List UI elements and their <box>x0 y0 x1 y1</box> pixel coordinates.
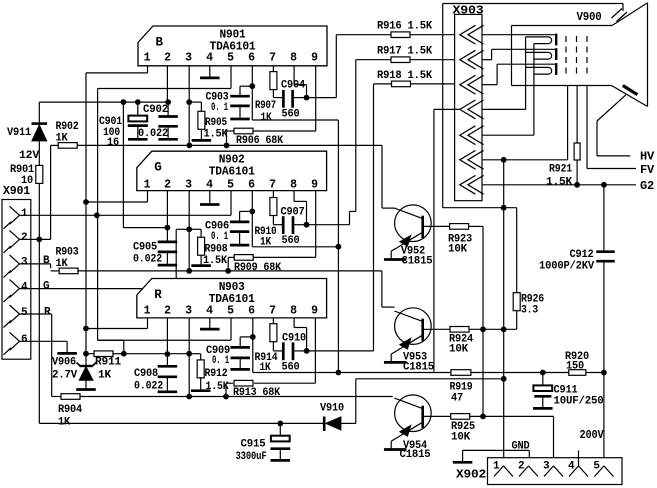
wire C915 top <box>279 423 281 435</box>
svg-text:R902: R902 <box>56 121 79 133</box>
label C901 <box>99 116 123 149</box>
wire N901 pin5 <box>98 66 231 89</box>
svg-text:0. 1: 0. 1 <box>211 231 228 243</box>
contact chevron X903 row3 <box>460 75 484 94</box>
wire R918 to X903 pin3 <box>410 83 459 85</box>
svg-text:2: 2 <box>164 52 171 65</box>
wire 200V column bottom <box>603 261 605 466</box>
svg-text:3.3: 3.3 <box>521 305 539 317</box>
capacitor C906 0.1 <box>205 221 249 244</box>
pin 2 X902 <box>518 461 538 477</box>
node pin6-C903 <box>249 83 255 89</box>
wire C909 tee <box>240 337 253 346</box>
wire G1 blank row <box>356 379 504 424</box>
svg-text:3: 3 <box>185 52 192 65</box>
wire N901 pin1 to common bias column <box>86 66 148 73</box>
wire C907 right <box>293 224 307 226</box>
svg-text:R904: R904 <box>58 404 83 416</box>
resistor R903 1K <box>56 247 80 274</box>
resistor R919 47 <box>450 370 473 405</box>
resistor R910 1K <box>255 198 277 249</box>
label X902 <box>456 468 486 482</box>
resistor R926 3.3 <box>513 293 544 317</box>
label V910 <box>320 403 344 415</box>
svg-text:10K: 10K <box>448 244 468 256</box>
node junction bias R911 <box>83 351 89 357</box>
wire X901 pin3 row B <box>20 264 51 268</box>
svg-text:2: 2 <box>21 232 27 244</box>
svg-text:560: 560 <box>282 361 300 373</box>
svg-text:V910: V910 <box>320 403 344 415</box>
capacitor C907 560 <box>281 206 305 247</box>
wire R920 right <box>586 372 604 374</box>
svg-text:3: 3 <box>185 304 192 317</box>
wire X901 pin1 row <box>20 214 231 216</box>
wire shield drop <box>503 160 505 466</box>
cathode bar 3 <box>555 63 557 75</box>
resistor R924 10K <box>449 327 474 356</box>
wire G riser to N902 pin3 <box>176 229 189 288</box>
wire N901 pin9 feedback <box>253 66 316 131</box>
break mark <box>612 9 628 22</box>
node junction pin1 N902 <box>83 199 89 205</box>
connector X901 box <box>2 200 31 360</box>
svg-text:R917 1.5K: R917 1.5K <box>377 45 433 57</box>
svg-text:2.7V: 2.7V <box>52 370 78 382</box>
wire X903 row5 to heater return <box>482 44 534 136</box>
resistor R906 68K <box>234 128 284 147</box>
svg-text:R908: R908 <box>205 244 229 256</box>
node C915 <box>277 421 283 427</box>
wire V906 to ground <box>85 380 87 388</box>
wire R921 bottom <box>576 160 578 185</box>
label V911 <box>7 127 32 139</box>
svg-text:C905: C905 <box>133 242 158 254</box>
contact chevron X903 row1 <box>460 25 484 44</box>
ground bar N902 pin4 <box>200 203 220 206</box>
wire FV <box>587 86 636 169</box>
contact chevron X903 row4 <box>460 100 484 119</box>
wire R924 right <box>469 328 517 330</box>
pin 3 X901 <box>4 255 29 278</box>
svg-text:47: 47 <box>451 393 463 405</box>
wire 12V rail <box>39 101 168 103</box>
resistor R914 1K <box>255 324 279 374</box>
wire X902 pin4 stub <box>578 451 580 466</box>
svg-text:R918 1.5K: R918 1.5K <box>377 70 433 82</box>
svg-text:1000P/2KV: 1000P/2KV <box>539 260 595 272</box>
wire R905 to ground <box>200 129 202 139</box>
capacitor C915 3300uF electrolytic <box>271 436 291 449</box>
capacitor C902 0.022 <box>143 104 178 126</box>
resistor R918 1.5K <box>377 70 433 87</box>
svg-text:3: 3 <box>21 257 28 269</box>
wire X903 row7 G2 <box>482 184 636 186</box>
wire R901 to X901 pin2 row <box>38 183 40 239</box>
svg-text:R: R <box>154 288 162 302</box>
wire 12V column to V910 row <box>38 239 40 423</box>
resistor R912 1.5K <box>197 360 229 393</box>
svg-text:R912: R912 <box>205 368 228 380</box>
resistor R925 10K <box>451 414 476 444</box>
heater filament 3 <box>526 67 552 74</box>
node beam rail join <box>336 370 342 376</box>
cathode bar 1 <box>555 34 557 46</box>
heater filament 2 <box>526 52 552 59</box>
wire R output to riser <box>307 350 374 352</box>
svg-text:V900: V900 <box>577 11 602 24</box>
wire pin3 to R912 <box>189 354 201 361</box>
svg-text:R905: R905 <box>205 117 228 129</box>
resistor R917 1.5K <box>377 45 433 62</box>
wire V910 anode <box>341 422 356 424</box>
wire 200V column top <box>603 185 605 252</box>
contact chevron X903 row2 <box>460 50 484 69</box>
label C911 <box>554 385 604 408</box>
wire X901 pin4 row G <box>20 288 177 290</box>
svg-text:10K: 10K <box>451 432 471 444</box>
wire C906 tee <box>240 211 253 220</box>
wire N902 pin9 feedback <box>253 191 316 258</box>
ground bar C903 <box>230 118 250 121</box>
node pin6-C909 <box>250 334 256 340</box>
wire R912 to ground <box>200 377 202 390</box>
zener diode V906 2.7V <box>77 363 96 381</box>
svg-text:8: 8 <box>290 178 297 191</box>
wire R925 right <box>469 415 554 417</box>
wire C905 to ground <box>166 253 168 264</box>
svg-text:12V: 12V <box>19 150 40 162</box>
wire R923 right drop <box>468 226 483 416</box>
resistor R916 1.5K <box>377 20 433 37</box>
node R906 input row <box>224 143 230 149</box>
wire C902 to ground <box>167 128 169 139</box>
pin 4 X902 <box>568 461 588 477</box>
wire C901 top <box>137 102 139 116</box>
wire X903 row6 G1 <box>482 86 567 160</box>
wire beam rail <box>253 372 451 374</box>
svg-text:0.022: 0.022 <box>133 254 162 266</box>
svg-text:3: 3 <box>543 461 550 473</box>
node N902 pin2 C905 <box>165 225 171 231</box>
wire R902 left to 12V pin2 row <box>51 145 59 239</box>
wire C911 top <box>542 373 544 386</box>
svg-text:5: 5 <box>227 178 234 191</box>
pin 1 X902 <box>493 461 513 477</box>
node N903 pin3 upper <box>186 351 192 357</box>
node B output <box>304 95 310 101</box>
wire R910 to C907 <box>273 215 283 225</box>
wire X903 row4 to heater <box>482 37 525 110</box>
label GND <box>512 441 531 453</box>
resistor R909 68K <box>234 255 282 274</box>
svg-text:TDA6101: TDA6101 <box>209 166 255 179</box>
wire C905 top <box>166 228 168 241</box>
svg-text:4: 4 <box>568 461 575 473</box>
svg-text:10K: 10K <box>449 344 469 356</box>
svg-text:10UF/250: 10UF/250 <box>554 395 604 407</box>
capacitor C908 0.022 <box>134 366 177 392</box>
svg-text:1: 1 <box>493 461 500 473</box>
label X903 <box>453 4 484 18</box>
op-amp U N901 TDA6101 (B channel amp) <box>138 26 327 66</box>
wire N902 pin2 supply <box>166 191 168 228</box>
resistor R907 1K <box>255 72 277 124</box>
ground bar C915 <box>271 459 291 462</box>
wire R916 to X903 pin1 <box>410 34 460 36</box>
node G2 200V <box>601 182 607 188</box>
contact chevron X903 row5 <box>460 126 484 145</box>
wire C904 right to output node <box>293 97 307 99</box>
svg-text:1: 1 <box>144 178 151 191</box>
wire R917 to X903 pin2 <box>410 59 460 61</box>
wire V911 top <box>38 102 40 124</box>
svg-text:V906: V906 <box>52 357 76 369</box>
transistor Q V952 C1815 <box>384 205 433 268</box>
label V900 <box>577 11 602 24</box>
svg-text:4: 4 <box>206 304 213 317</box>
wire N902 pin4 ground <box>209 191 211 204</box>
op-amp U N902 TDA6101 (G channel amp) <box>137 151 327 191</box>
svg-text:1K: 1K <box>260 237 272 249</box>
wire N901 pin3 down <box>188 66 190 146</box>
svg-text:C1815: C1815 <box>402 256 434 268</box>
svg-text:1: 1 <box>144 304 151 317</box>
resistor R901 10 <box>10 164 43 187</box>
svg-text:C910: C910 <box>282 333 306 345</box>
svg-text:C907: C907 <box>281 206 305 218</box>
svg-text:5: 5 <box>227 304 234 317</box>
resistor R923 10K <box>448 224 473 256</box>
wire X903 row4 left <box>434 109 460 371</box>
node X901 pin1 junction <box>94 212 100 218</box>
node shield R919 row <box>501 376 507 382</box>
wire N903 pin7 to R914 <box>272 318 274 324</box>
node pin3-input-row <box>187 143 193 149</box>
pin 1 X901 <box>4 206 29 229</box>
svg-text:R921: R921 <box>549 164 573 176</box>
svg-text:5: 5 <box>227 52 234 65</box>
resistor R921 1.5K <box>546 143 580 188</box>
svg-text:1K: 1K <box>56 258 69 270</box>
label B <box>43 255 50 267</box>
wire C901 to ground <box>137 127 139 138</box>
pin 3 X902 <box>543 461 563 477</box>
wire R903 left <box>51 270 60 272</box>
node R923-R925 <box>480 414 486 420</box>
resistor R905 1.5K <box>198 111 228 140</box>
svg-text:7: 7 <box>269 304 276 317</box>
svg-text:8: 8 <box>290 52 297 65</box>
wire C909 to ground <box>239 359 241 368</box>
capacitor C910 560 <box>282 333 307 374</box>
node N902 pin3 input <box>186 226 192 232</box>
wire N903 pin6 down <box>252 318 254 373</box>
svg-text:9: 9 <box>311 52 318 65</box>
svg-text:C908: C908 <box>134 368 159 380</box>
svg-text:9: 9 <box>311 178 318 191</box>
label C915 <box>236 439 267 464</box>
wire pin3 to R908 <box>189 229 201 237</box>
ground bar X902 <box>453 461 473 464</box>
svg-text:R: R <box>44 306 51 318</box>
wire rail right <box>471 372 569 374</box>
wire C908 top <box>166 354 168 365</box>
pin 2 X901 <box>4 230 28 253</box>
svg-text:C1815: C1815 <box>403 361 435 373</box>
wire R906 left <box>227 131 235 145</box>
node R output <box>304 348 310 354</box>
node shield frame <box>501 205 507 211</box>
svg-text:4: 4 <box>206 178 213 191</box>
resistor R920 150 <box>565 351 589 375</box>
svg-text:560: 560 <box>282 109 300 121</box>
label HV <box>640 151 654 164</box>
svg-text:6: 6 <box>21 334 27 346</box>
capacitor C909 0.1 <box>206 345 250 367</box>
svg-text:16: 16 <box>107 137 119 149</box>
ground bar R905 <box>192 139 212 142</box>
svg-text:G2: G2 <box>640 180 654 193</box>
ground bar N903 pin4 <box>200 328 220 331</box>
wire R911 row <box>124 353 189 355</box>
node R913 lower <box>223 394 229 400</box>
svg-text:8: 8 <box>290 304 297 317</box>
svg-text:2: 2 <box>164 178 171 191</box>
node pin3 N902 row <box>186 268 192 274</box>
svg-text:5: 5 <box>593 461 600 473</box>
transistor Q V953 C1815 <box>384 308 435 373</box>
wire C908 to ground <box>166 378 168 391</box>
contact chevron X903 row7 <box>460 175 484 194</box>
wire cathode 1 <box>482 34 556 36</box>
capacitor C911 10UF/250 electrolytic <box>533 385 552 396</box>
wire G output riser <box>356 60 391 212</box>
node R901 pin2 <box>36 237 42 243</box>
label G2 <box>640 180 654 193</box>
pin 5 X902 <box>593 461 613 477</box>
svg-text:C1815: C1815 <box>400 449 432 461</box>
wire beam sense vertical <box>337 120 339 373</box>
node R911 right feed <box>121 351 127 357</box>
anode stroke <box>623 86 638 95</box>
wire R911 right <box>112 353 123 355</box>
resistor R902 1K <box>56 121 79 148</box>
svg-text:R916 1.5K: R916 1.5K <box>377 20 433 32</box>
diode V910 <box>324 417 341 431</box>
crt V900 funnel <box>612 3 648 107</box>
wire C915 to ground <box>279 449 281 460</box>
node 12V-C901 <box>121 99 127 105</box>
node R923-R924 <box>480 326 486 332</box>
wire R926 bottom <box>516 310 518 329</box>
cathode bar 2 <box>555 48 557 60</box>
svg-text:G: G <box>154 161 161 175</box>
svg-text:0. 1: 0. 1 <box>212 355 229 367</box>
wire N903 pin1 <box>86 318 148 329</box>
label 200V <box>580 429 604 442</box>
connector X902 box <box>488 458 623 485</box>
svg-text:150: 150 <box>566 360 584 372</box>
wire N903 pin8 output <box>294 318 307 351</box>
wire V910 cathode row <box>39 422 324 424</box>
wire X901 pin2 row <box>20 238 51 240</box>
contact chevron X903 row6 <box>460 150 484 169</box>
grid dashed electrode 3 <box>586 36 588 78</box>
ground bar N901 pin4 <box>200 77 220 80</box>
label R <box>44 306 51 318</box>
wire V954 base to R925 <box>424 415 451 417</box>
node rail C911 <box>540 370 546 376</box>
svg-text:R903: R903 <box>56 247 80 259</box>
wire N903 pin9 feedback <box>254 318 315 383</box>
svg-text:2: 2 <box>518 461 524 473</box>
svg-text:C915: C915 <box>241 439 267 451</box>
label C902 value <box>138 128 168 140</box>
wire B input row <box>77 144 382 146</box>
wire N901 pin6 down <box>251 66 253 120</box>
pin 6 X901 <box>4 332 28 355</box>
capacitor C912 1000P/2KV <box>539 249 615 272</box>
svg-text:1: 1 <box>21 208 28 220</box>
wire X902 gnd <box>463 450 530 466</box>
svg-text:C904: C904 <box>281 80 306 92</box>
wire V911 to R901 <box>38 141 40 166</box>
wire R926 column <box>516 208 518 294</box>
wire pin3 to R905 <box>189 102 201 111</box>
wire zener V906 top <box>85 354 87 366</box>
node N903 pin2 <box>165 351 171 357</box>
wire X901 pin5 row R <box>20 313 52 315</box>
svg-text:6: 6 <box>248 52 255 65</box>
svg-text:1: 1 <box>144 52 151 65</box>
wire C906 to ground <box>239 233 241 244</box>
wire C903 tee <box>240 86 252 95</box>
node G1 shield <box>501 157 507 163</box>
wire HV <box>597 95 630 156</box>
wire pin6 to beam line <box>252 246 338 248</box>
ground bar V906 <box>76 388 96 391</box>
label X901 <box>3 185 30 198</box>
wire N903 pin5 <box>98 318 231 340</box>
node pin6-C906 <box>249 209 255 215</box>
wire C902 top <box>167 102 169 115</box>
svg-text:1.5K: 1.5K <box>546 176 573 188</box>
wire R921 top <box>576 86 578 144</box>
wire cathode 2 <box>482 49 556 59</box>
node 12V-C902-pin2 <box>165 99 171 105</box>
connector X903 outer frame <box>443 4 623 208</box>
label G <box>43 280 50 292</box>
svg-text:4: 4 <box>206 52 213 65</box>
wire N903 pin3 down <box>188 318 190 397</box>
ground bar C901 <box>128 138 148 141</box>
grid dashed electrode 1 <box>565 36 567 78</box>
label 12V <box>19 150 40 162</box>
svg-text:1K: 1K <box>56 133 69 145</box>
svg-text:B: B <box>156 36 164 50</box>
ground bar C909 <box>230 368 250 371</box>
wire N901 pin4 ground <box>209 66 211 77</box>
wire R908 to ground <box>200 255 202 265</box>
grid dashed electrode 2 <box>576 36 578 78</box>
svg-text:7: 7 <box>269 178 276 191</box>
node G output <box>304 222 310 228</box>
resistor R904 1K <box>58 394 83 429</box>
svg-text:4: 4 <box>21 281 28 293</box>
op-amp U N903 TDA6101 (R channel amp) <box>137 279 327 318</box>
connector X903 inner box <box>455 14 482 200</box>
